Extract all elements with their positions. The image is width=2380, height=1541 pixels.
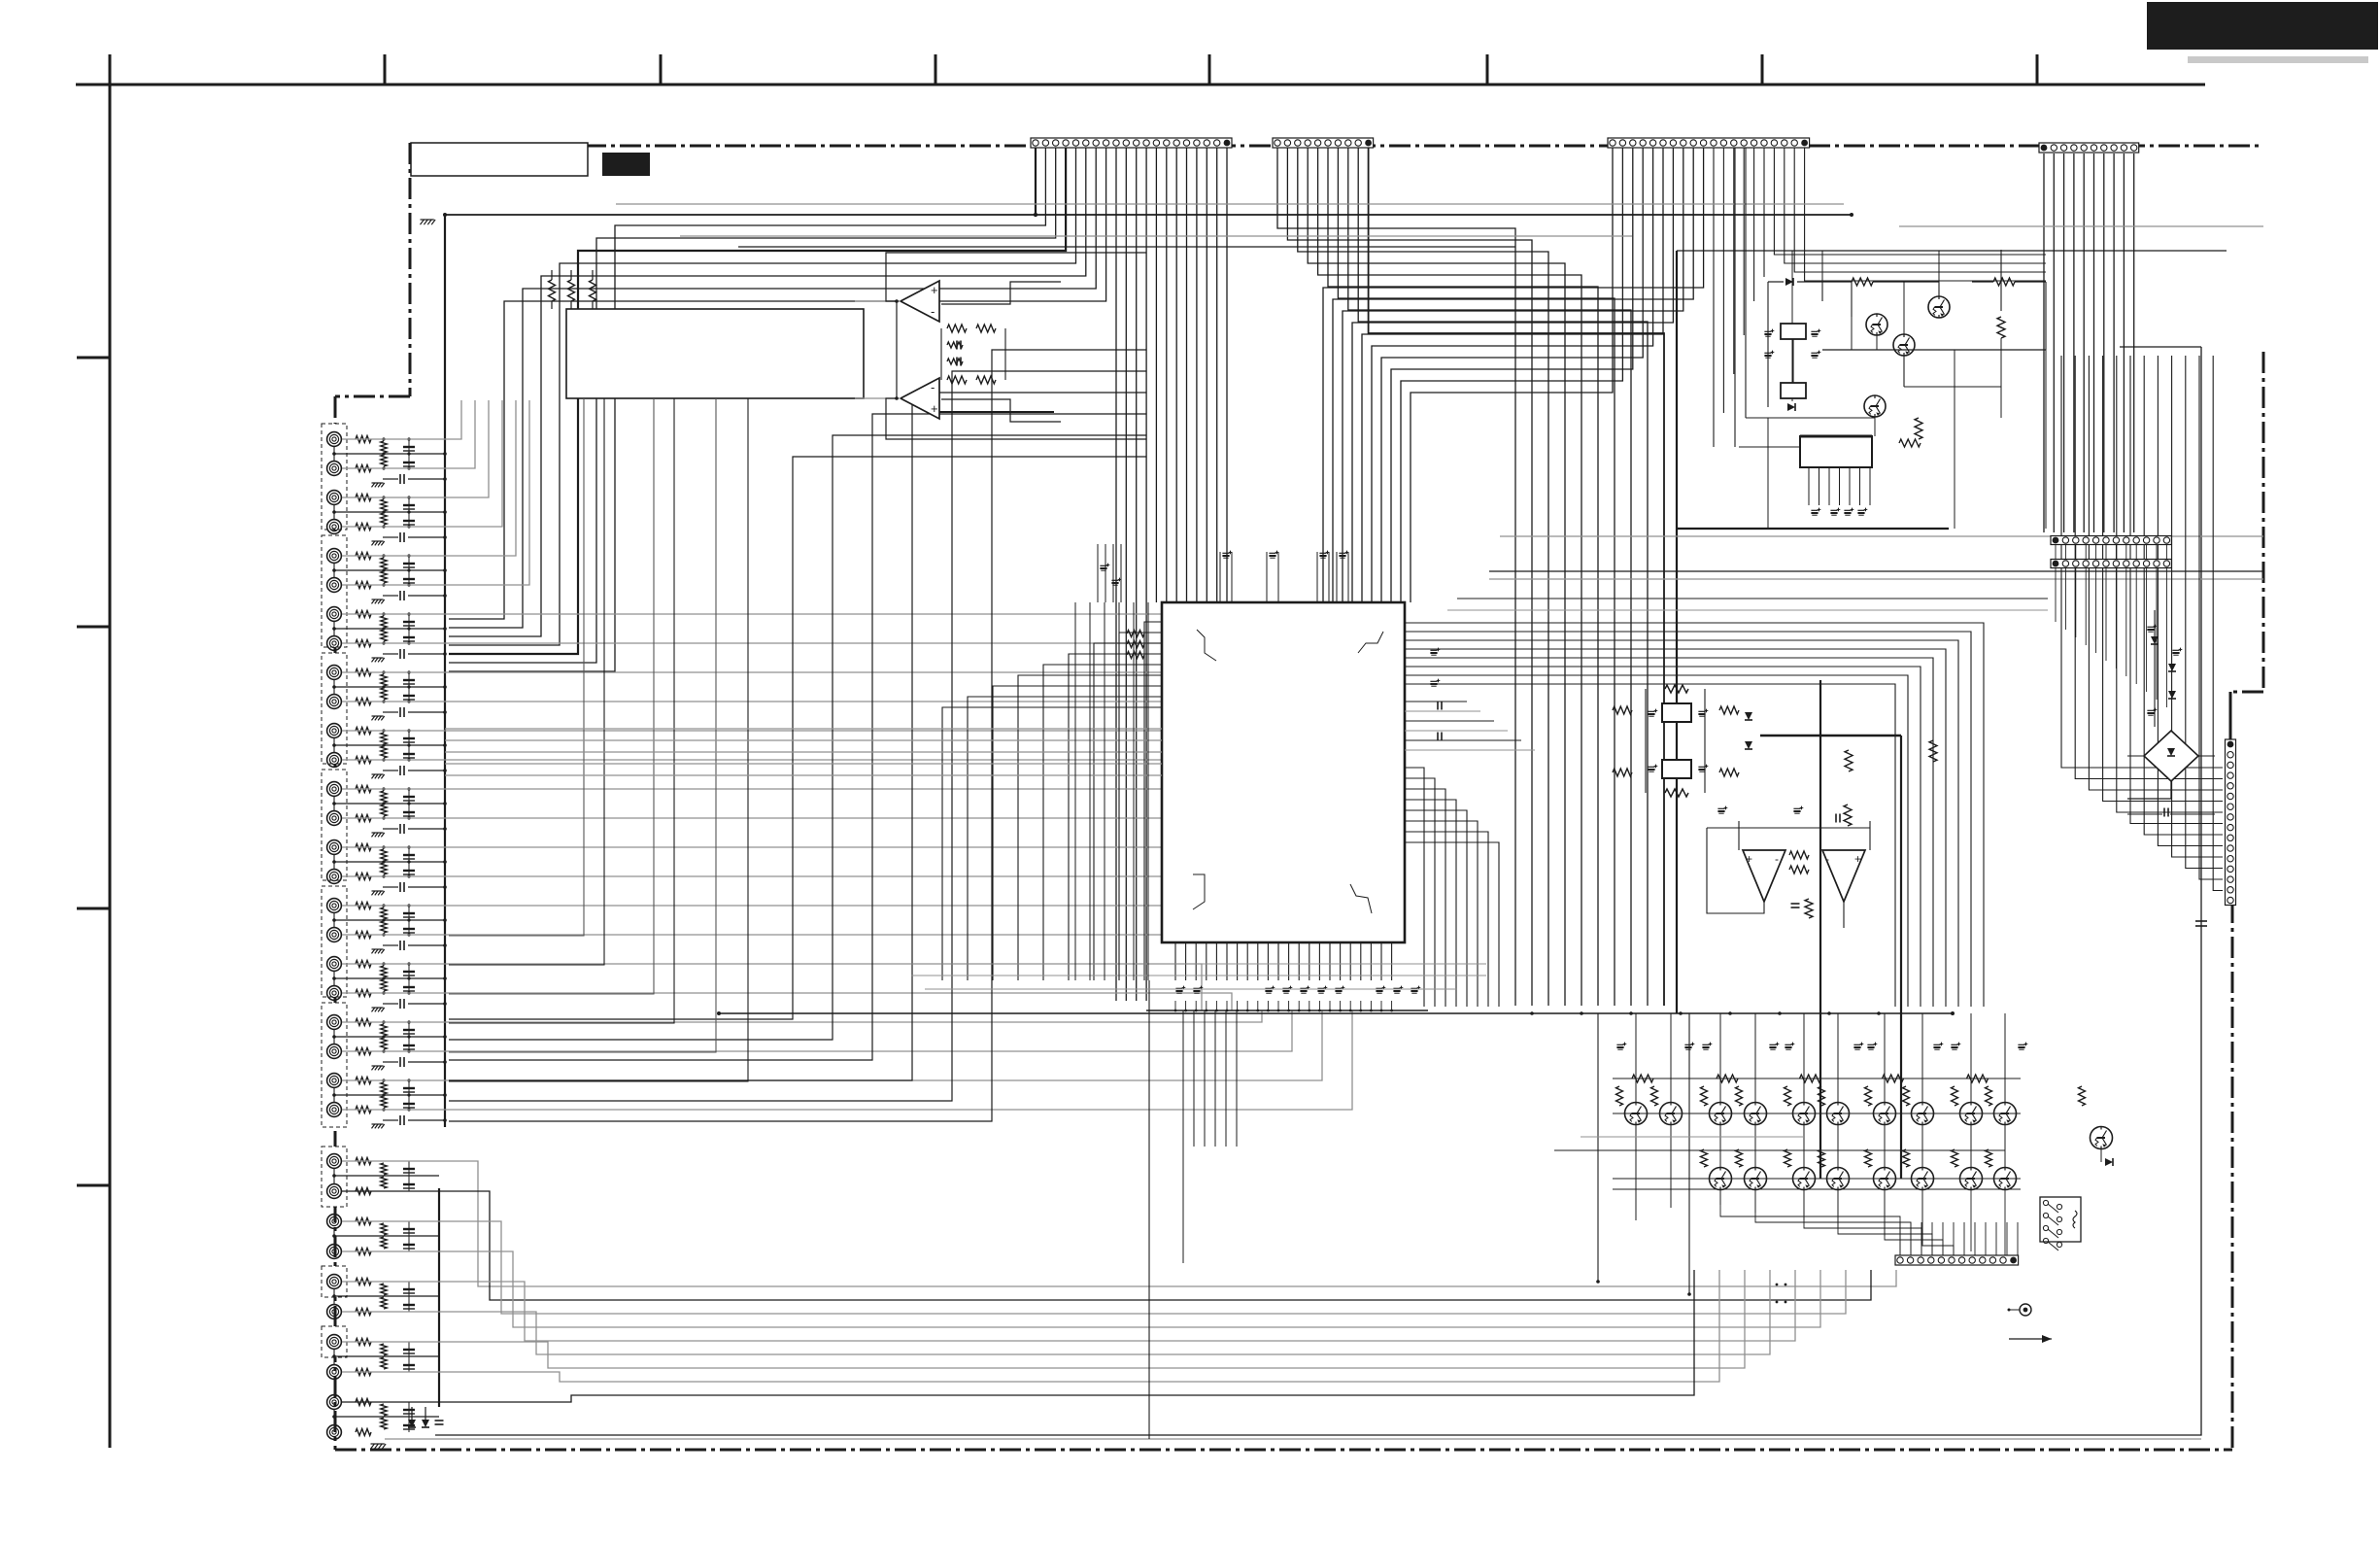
series resistors A11 — [356, 1019, 371, 1026]
pair mid wire A1 — [333, 446, 335, 462]
resistor RT2 — [568, 280, 575, 301]
ruler tick top 2 — [384, 54, 387, 85]
jack pair A7 — [327, 782, 342, 797]
resistor RA10 — [381, 966, 387, 977]
series resistors B3 — [356, 1279, 371, 1285]
capacitor CA2 — [408, 497, 410, 527]
regulator IC U31 — [1800, 436, 1872, 467]
power horizontal links — [1739, 446, 1800, 448]
transistor QB1 — [1710, 1168, 1732, 1190]
ruler tick left 1 — [77, 357, 110, 360]
rails to CN5 — [1457, 598, 2048, 599]
diode D41 — [2105, 1158, 2113, 1166]
series resistors A10 — [356, 961, 371, 968]
array row links — [1719, 1124, 1721, 1168]
series resistors A4 — [356, 611, 371, 618]
IC right side caps — [1430, 649, 1437, 651]
wire bundle CN3 right to power — [1713, 148, 1715, 447]
pair mid wire B5 — [333, 1409, 335, 1425]
ruler tick top 6 — [1486, 54, 1489, 85]
ruler tick top 4 — [935, 54, 937, 85]
array emitter rail row2 — [1613, 1188, 2021, 1190]
IC corner mark 1 — [1197, 630, 1216, 661]
capacitor CB4 — [408, 1342, 410, 1372]
board label box — [411, 143, 588, 176]
ground cap row A5 — [372, 716, 375, 720]
wire bundle CN2 — [1277, 148, 1515, 1006]
board outline dash-dot left lower — [334, 396, 337, 1450]
IC corner mark 3 — [1193, 874, 1205, 909]
series resistors B4 — [356, 1339, 371, 1346]
ground cap row A1 — [372, 483, 375, 487]
resistor RA6 — [381, 733, 387, 744]
pair mid wire A6 — [333, 737, 335, 753]
bridge rectifier BR1 — [2144, 731, 2198, 781]
pair mid wire B4 — [333, 1349, 335, 1365]
capacitor CB2 — [408, 1221, 410, 1251]
ground cap row A11 — [372, 1066, 375, 1070]
svg-text:-: - — [931, 380, 935, 394]
main horizontal bus — [719, 1012, 1953, 1014]
capacitor CA10 — [408, 964, 410, 993]
board outline dash-dot right upper — [2262, 352, 2265, 692]
board outline dash-dot right lower — [2231, 902, 2234, 1450]
jack pair B5 — [327, 1395, 342, 1410]
IC right pins upper — [1405, 623, 1984, 1007]
wire bundle CN1 middle — [1115, 148, 1117, 1001]
series resistors A6 — [356, 728, 371, 735]
wire bundle CN5 left fans — [2055, 544, 2057, 560]
capacitor CB1 — [408, 1161, 410, 1191]
board outline dash-dot bottom — [335, 1449, 2232, 1452]
IC bottom cap clusters — [1175, 987, 1182, 989]
pair mid wire A3 — [333, 563, 335, 578]
ruler tick left 4 — [77, 1184, 110, 1187]
transistor array resistor rail — [1613, 1078, 2021, 1079]
connector CN5a — [2051, 536, 2171, 545]
jack pair A4 — [327, 607, 342, 622]
pair mid wire A5 — [333, 679, 335, 695]
connector CN4 — [2039, 143, 2139, 153]
resistor RA7 — [381, 791, 387, 803]
transistor array column feeds — [1635, 1013, 1637, 1102]
inner border right — [435, 347, 2201, 1435]
resistor RA11 — [381, 1024, 387, 1036]
transistor QB2 — [1745, 1168, 1767, 1190]
resistor RT1 — [549, 280, 556, 301]
pair mid wire A9 — [333, 912, 335, 928]
series resistors A2 — [356, 495, 371, 501]
series resistors A5 — [356, 669, 371, 676]
plus marks — [1776, 1284, 1779, 1286]
resistor RB4 — [381, 1344, 387, 1355]
transistor QA10 — [1994, 1103, 2017, 1125]
transistor QA5 — [1793, 1103, 1816, 1125]
op-amp U1b — [901, 378, 939, 419]
pair mid wire A2 — [333, 504, 335, 520]
long vertical to bottom rail — [1148, 980, 1150, 1439]
resistor RB3 — [381, 1284, 387, 1295]
inner border cap — [2195, 920, 2207, 922]
connector CN2 — [1273, 138, 1374, 148]
connector CN5b — [2051, 560, 2171, 568]
ruler tick top 5 — [1208, 54, 1211, 85]
resistor RA1 — [381, 441, 387, 453]
feedback network U1 — [855, 300, 901, 302]
jack group B dashed enclosures — [322, 1147, 347, 1207]
ground cap row A7 — [372, 833, 375, 837]
regulator caps — [1811, 509, 1818, 511]
power wires — [1767, 282, 1769, 407]
IC U201 main body — [1162, 602, 1405, 942]
ruler tick top 3 — [660, 54, 663, 85]
wire bundle CN3 left fan to IC — [1411, 148, 1613, 602]
wire bundle CN4 down — [2043, 154, 2045, 532]
capacitor CA12 — [408, 1080, 410, 1110]
capacitor CA5 — [408, 672, 410, 702]
jack pair A2 — [327, 491, 342, 505]
jack pair A12 — [327, 1074, 342, 1088]
jack pair A9 — [327, 899, 342, 913]
resistor RA8 — [381, 849, 387, 861]
op-amp U1a — [901, 281, 939, 322]
board outline dash-dot top — [410, 145, 2263, 148]
jack pair A3 — [327, 549, 342, 564]
pair mid wire A8 — [333, 854, 335, 870]
svg-text:-: - — [1825, 852, 1829, 866]
transistor Q34 — [1864, 395, 1886, 417]
jack pair B1 — [327, 1154, 342, 1169]
pair mid wire B1 — [333, 1168, 335, 1184]
capacitor CA9 — [408, 906, 410, 935]
top horizontal rails — [616, 203, 1844, 205]
resistor RB1 — [381, 1163, 387, 1175]
ruler tick top 1 — [109, 54, 112, 85]
pair mid wire A11 — [333, 1029, 335, 1044]
board label black box — [602, 153, 650, 176]
bus group B — [438, 1188, 440, 1407]
ground bus wire horizontal — [445, 214, 1852, 216]
ruler tick left 2 — [77, 626, 110, 629]
jack group A dashed enclosures — [322, 424, 347, 530]
power rail top — [1899, 225, 2263, 227]
transistor Q41 — [2091, 1127, 2113, 1149]
series resistors A12 — [356, 1078, 371, 1084]
resistor R32 — [1993, 278, 2015, 286]
transistor QA9 — [1960, 1103, 1983, 1125]
capacitor CA6 — [408, 731, 410, 760]
transistor QB3 — [1793, 1168, 1816, 1190]
jack pair A11 — [327, 1015, 342, 1030]
capacitor CA4 — [408, 614, 410, 643]
ground cap row A3 — [372, 599, 375, 603]
capacitor CA8 — [408, 847, 410, 876]
pair mid wire A12 — [333, 1087, 335, 1103]
diode cluster bottom left — [411, 1407, 413, 1421]
signal fan group B staircase — [342, 1161, 1896, 1286]
power small package P2 — [1781, 383, 1806, 398]
transistor Q33 — [1893, 334, 1915, 356]
regulator pins — [1808, 467, 1810, 505]
ground cap row A12 — [372, 1124, 375, 1128]
IC top pin caps — [1097, 544, 1099, 602]
svg-text:+: + — [931, 401, 938, 416]
resistor RA5 — [381, 674, 387, 686]
transistor QA7 — [1874, 1103, 1896, 1125]
capacitor CA11 — [408, 1022, 410, 1051]
diode D31 — [1768, 281, 1784, 283]
transistor QA4 — [1745, 1103, 1767, 1125]
power bottom bus — [1677, 528, 1949, 530]
power small package P1 — [1781, 324, 1806, 339]
transistor array caps — [1616, 1044, 1623, 1045]
headphone jack J41 — [2020, 1304, 2031, 1316]
ground cap row A9 — [372, 949, 375, 953]
ruler tick left 3 — [77, 907, 110, 910]
ground symbol G1 — [421, 220, 425, 224]
connector CN7 — [1895, 1255, 2019, 1265]
jack pair B4 — [327, 1335, 342, 1350]
svg-text:-: - — [1775, 852, 1779, 866]
jack pair A1 — [327, 432, 342, 447]
opamp U5 output wires — [1707, 828, 1764, 913]
op-amp U5a (down) — [1743, 850, 1785, 902]
connector CN6 (vertical) — [2226, 739, 2236, 906]
page frame ruler top — [76, 84, 2205, 86]
mute switch S1 — [2040, 1197, 2081, 1242]
ground cap row A2 — [372, 541, 375, 545]
ground cap row A8 — [372, 891, 375, 895]
thick rails near crystal — [1760, 735, 1901, 736]
zener pair right of crystal — [1745, 712, 1752, 720]
capacitor CA1 — [408, 439, 410, 468]
transistor array center rails — [1613, 1113, 2021, 1114]
transistor Q32 — [1928, 296, 1950, 318]
board outline dash-dot left upper — [409, 143, 412, 396]
resistor RB5 — [381, 1404, 387, 1416]
bridge wires — [2127, 755, 2144, 757]
bus drop verticals to bottom rails — [1597, 1013, 1599, 1282]
power knit wires — [1791, 251, 1793, 324]
transistor QA8 — [1912, 1103, 1934, 1125]
capacitor CA7 — [408, 789, 410, 818]
transistor QB5 — [1874, 1168, 1896, 1190]
wire bundle mid descenders to jacks — [449, 457, 1146, 1019]
array staircase to CN7 — [1719, 1189, 1721, 1205]
op-amp U5b (down) — [1822, 850, 1865, 902]
connector CN1 — [1031, 138, 1232, 148]
transistor QA3 — [1710, 1103, 1732, 1125]
signal arrow — [2009, 1338, 2052, 1340]
IC bottom pins — [1174, 942, 1176, 980]
resistor R31 — [1852, 278, 1873, 286]
under-IC horizontal greys — [911, 963, 1486, 965]
svg-text:-: - — [931, 304, 935, 319]
ground cap row A6 — [372, 774, 375, 778]
signal fan group A — [342, 400, 461, 439]
series resistors B5 — [356, 1399, 371, 1406]
pair mid wire B3 — [333, 1288, 335, 1305]
series resistors A9 — [356, 903, 371, 909]
transistor QB7 — [1960, 1168, 1983, 1190]
diode column right — [2154, 610, 2156, 727]
ground cap row A4 — [372, 658, 375, 662]
bus junction dots — [1530, 1011, 1534, 1015]
ruler tick top 8 — [2036, 54, 2039, 85]
IC right pins lower — [1405, 768, 1424, 1007]
opamp U1b output bold — [939, 411, 1054, 413]
svg-text:+: + — [1854, 852, 1861, 866]
array mid horizontals — [1581, 1136, 1804, 1138]
IC left resistors — [1127, 631, 1144, 637]
transistor QB6 — [1912, 1168, 1934, 1190]
board outline dash-dot right jog — [2230, 691, 2263, 694]
connector CN3 — [1608, 138, 1810, 148]
bus vertical droppers — [1074, 602, 1076, 980]
IC left pins lower (grey) — [445, 728, 1162, 730]
transistor QA6 — [1827, 1103, 1850, 1125]
series resistors A3 — [356, 553, 371, 560]
jack pair B3 — [327, 1275, 342, 1289]
capacitor CB5 — [408, 1402, 410, 1432]
wire bundle CN1 right to IC — [1155, 148, 1157, 602]
capacitor CA3 — [408, 556, 410, 585]
pair mid wire A7 — [333, 796, 335, 811]
resistor RA3 — [381, 558, 387, 569]
series resistors A7 — [356, 786, 371, 793]
series resistors A1 — [356, 436, 371, 443]
resistor RA2 — [381, 499, 387, 511]
transistor QA2 — [1660, 1103, 1683, 1125]
resistor RT3 — [590, 280, 596, 301]
wire stairs transistor to CN7 — [1720, 1189, 1900, 1255]
svg-text:+: + — [931, 283, 938, 297]
pair mid wire A4 — [333, 621, 335, 636]
wire opamp outputs — [886, 253, 1146, 301]
board outline dash-dot jog — [335, 395, 410, 398]
ground bottom left — [371, 1444, 375, 1449]
series resistors B1 — [356, 1158, 371, 1165]
transistor QA1 — [1625, 1103, 1648, 1125]
series resistors A8 — [356, 844, 371, 851]
transistor QB8 — [1994, 1168, 2017, 1190]
IC left pins — [1144, 622, 1162, 980]
opamp U5 network — [1789, 851, 1809, 859]
IC bottom descenders — [1182, 1010, 1184, 1147]
IC corner mark 4 — [1350, 884, 1372, 913]
resistor RA9 — [381, 907, 387, 919]
IC right pins middle — [1405, 701, 1467, 702]
title block caption (faint) — [2188, 56, 2368, 63]
crystal X1 block — [1662, 703, 1691, 722]
resistor RA4 — [381, 616, 387, 628]
resistor RB2 — [381, 1223, 387, 1235]
crystal side resistors — [1613, 706, 1632, 714]
ground cap row A10 — [372, 1008, 375, 1011]
block label box U10 — [566, 309, 864, 398]
transistor Q31 — [1866, 314, 1887, 335]
page frame ruler left — [109, 58, 112, 1448]
pair mid wire B2 — [333, 1228, 335, 1245]
jack pair A5 — [327, 666, 342, 680]
pair mid wire A10 — [333, 971, 335, 986]
jack pair A10 — [327, 957, 342, 972]
wire bundle right nest to CN6 — [2061, 356, 2223, 768]
transistor array vertical resistors — [1616, 1086, 1623, 1106]
series resistors B2 — [356, 1218, 371, 1225]
wire bundle CN1 left fan — [1035, 148, 1037, 215]
diode D32 — [1787, 403, 1795, 411]
IC corner mark 2 — [1358, 632, 1383, 653]
jack pair B2 — [327, 1215, 342, 1229]
resistor RA12 — [381, 1082, 387, 1094]
ruler tick top 7 — [1761, 54, 1764, 85]
ground bus wire vertical — [444, 215, 446, 1127]
jack pair A8 — [327, 840, 342, 855]
IC bottom bus — [1146, 1010, 1428, 1011]
wires below label box — [449, 398, 584, 936]
capacitor CB3 — [408, 1282, 410, 1312]
transistor QB4 — [1827, 1168, 1850, 1190]
jack pair A6 — [327, 724, 342, 738]
title block (black) — [2147, 2, 2378, 50]
svg-text:+: + — [1746, 852, 1752, 866]
